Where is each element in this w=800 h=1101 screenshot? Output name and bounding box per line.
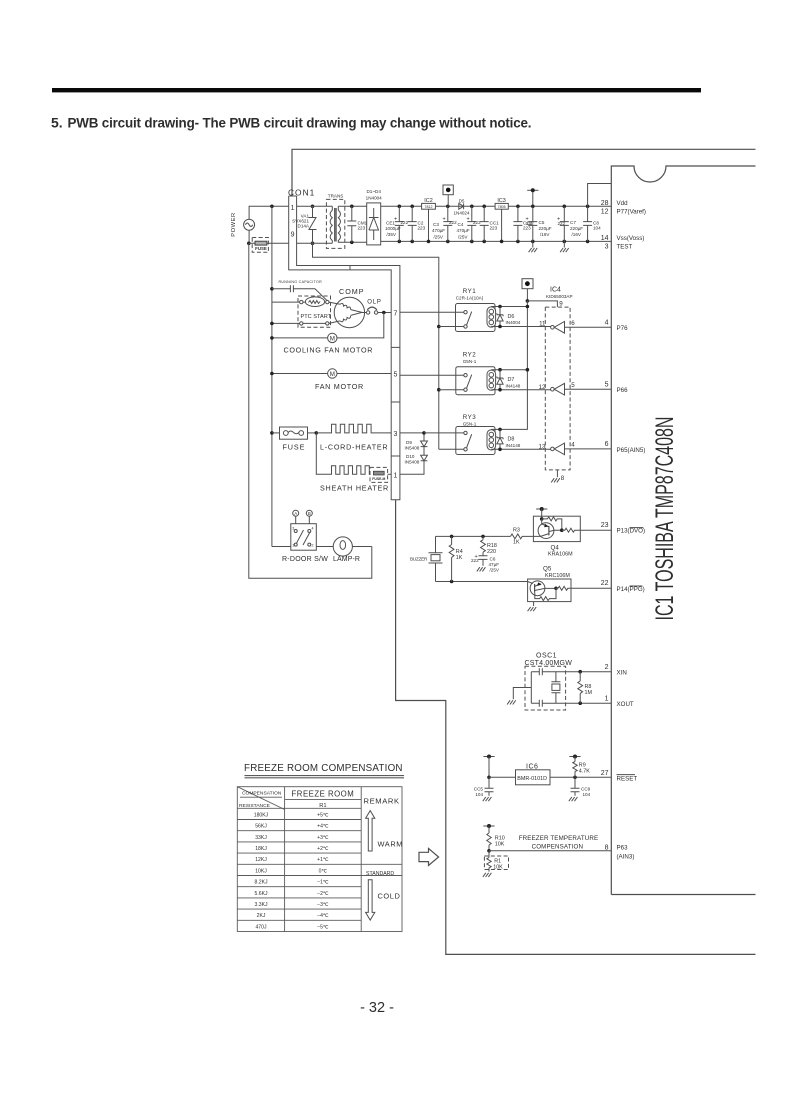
svg-text:222: 222 <box>401 220 409 225</box>
svg-text:R10: R10 <box>495 835 505 841</box>
svg-text:C7: C7 <box>570 220 576 225</box>
svg-text:KID65003AP: KID65003AP <box>546 294 573 299</box>
svg-text:+: + <box>394 217 397 223</box>
svg-text:L-CORD-HEATER: L-CORD-HEATER <box>320 442 388 451</box>
relay RY1 <box>400 288 496 331</box>
wire RY3 to pin13 <box>491 443 550 451</box>
svg-text:CC9: CC9 <box>581 787 591 792</box>
wire schematic top border <box>292 149 756 196</box>
svg-text:FUSE-M: FUSE-M <box>372 477 385 481</box>
svg-text:3: 3 <box>605 244 609 251</box>
svg-text:OSC1: OSC1 <box>536 653 557 660</box>
svg-text:2KJ: 2KJ <box>257 913 266 919</box>
svg-text:12: 12 <box>601 209 609 216</box>
diode D6 <box>491 305 529 327</box>
table headers <box>239 790 400 809</box>
svg-text:/16V: /16V <box>572 232 582 237</box>
svg-text:+1℃: +1℃ <box>317 857 329 863</box>
svg-text:470µF: 470µF <box>432 228 445 233</box>
svg-text:1M: 1M <box>585 690 593 696</box>
svg-text:TEST: TEST <box>617 244 633 251</box>
diode D8 <box>491 428 527 450</box>
svg-text:104: 104 <box>475 792 483 797</box>
svg-text:D9: D9 <box>406 440 412 445</box>
svg-text:RESET: RESET <box>617 775 638 782</box>
svg-text:RY2: RY2 <box>463 351 476 358</box>
power tap Vcc <box>527 188 538 208</box>
svg-text:Vdd: Vdd <box>617 200 629 207</box>
svg-text:12KJ: 12KJ <box>255 857 267 863</box>
svg-text:5: 5 <box>571 382 575 389</box>
table col1 values <box>254 812 269 930</box>
svg-text:470µF: 470µF <box>457 228 470 233</box>
svg-text:KRA106M: KRA106M <box>548 552 573 558</box>
arrow pointer <box>419 848 439 865</box>
capacitor CE1 <box>385 205 409 244</box>
wire power bottom to CON1 pin9 <box>249 242 289 244</box>
svg-text:33KJ: 33KJ <box>255 835 267 841</box>
svg-text:/25V: /25V <box>434 235 444 240</box>
arrow warm <box>366 811 403 851</box>
svg-text:−2℃: −2℃ <box>317 891 329 897</box>
svg-text:1N4004: 1N4004 <box>366 195 383 200</box>
svg-text:FREEZE ROOM COMPENSATION: FREEZE ROOM COMPENSATION <box>244 763 404 774</box>
svg-text:OLP: OLP <box>367 300 381 306</box>
svg-text:COMPENSATION: COMPENSATION <box>532 843 584 850</box>
svg-text:IN5408: IN5408 <box>405 460 420 465</box>
svg-text:18KJ: 18KJ <box>255 846 267 852</box>
svg-text:RUNNING CAPACITOR: RUNNING CAPACITOR <box>279 280 323 284</box>
buzzer BZ1 <box>410 536 443 581</box>
diode D10 <box>400 447 428 475</box>
svg-text:+: + <box>467 217 470 223</box>
svg-text:R4: R4 <box>456 549 463 555</box>
capacitor C5 <box>526 206 552 252</box>
svg-text:4: 4 <box>605 320 609 327</box>
svg-text:IN4148: IN4148 <box>506 383 521 388</box>
wire gnd rail <box>381 240 612 242</box>
svg-text:1: 1 <box>291 205 295 212</box>
wire CON1 to transformer primary <box>297 206 333 243</box>
pin 6 P65 <box>605 441 646 454</box>
wire +rail <box>381 205 612 207</box>
svg-text:M: M <box>330 371 335 378</box>
svg-text:IC6: IC6 <box>526 763 538 770</box>
wire switch to vertical <box>272 546 291 548</box>
regulator IC3 <box>495 198 508 243</box>
pin 27 RESET <box>601 770 638 782</box>
svg-text:P77(Varef): P77(Varef) <box>617 209 646 216</box>
wire coil supply bus <box>526 301 528 430</box>
svg-text:IN5408: IN5408 <box>405 446 420 451</box>
svg-text:M: M <box>330 336 335 343</box>
svg-text:223: 223 <box>523 226 531 231</box>
svg-text:R8: R8 <box>585 684 592 690</box>
svg-text:14: 14 <box>601 235 609 242</box>
svg-text:9: 9 <box>291 232 295 239</box>
svg-text:COMPENSATION: COMPENSATION <box>242 791 282 797</box>
pin 4 P76 <box>605 320 628 333</box>
svg-text:R18: R18 <box>487 543 497 549</box>
svg-text:- 32 -: - 32 - <box>360 1000 394 1016</box>
svg-text:C5: C5 <box>539 220 545 225</box>
svg-text:PTC START: PTC START <box>301 314 332 320</box>
heater sheath <box>316 433 389 493</box>
pin 12 P77 <box>601 209 646 216</box>
svg-text:28: 28 <box>601 200 609 207</box>
PTC start relay <box>298 296 332 327</box>
svg-text:IN4148: IN4148 <box>506 443 521 448</box>
svg-text:P13(DVO): P13(DVO) <box>617 528 646 535</box>
svg-text:LAMP-R: LAMP-R <box>333 556 360 563</box>
pin 1 XOUT <box>605 695 634 708</box>
motor COMP <box>329 287 367 328</box>
svg-text:G5N-1: G5N-1 <box>463 359 477 364</box>
svg-text:FREEZER TEMPERATURE: FREEZER TEMPERATURE <box>519 835 599 842</box>
table frame <box>237 787 402 932</box>
svg-text:222: 222 <box>526 221 534 226</box>
svg-text:180KJ: 180KJ <box>254 812 269 818</box>
svg-text:222: 222 <box>449 220 457 225</box>
resistor R10 <box>483 824 611 853</box>
pin 14 Vss <box>601 235 645 242</box>
svg-text:BMR-0101D: BMR-0101D <box>517 776 547 782</box>
switch R-door <box>282 510 328 563</box>
svg-text:Vss(Voss): Vss(Voss) <box>617 235 645 242</box>
capacitor C6 <box>471 554 500 573</box>
wire PTC left leads <box>272 302 300 323</box>
svg-text:SHEATH HEATER: SHEATH HEATER <box>320 484 389 493</box>
diode D9 <box>400 431 428 450</box>
svg-text:1N4024: 1N4024 <box>453 211 470 216</box>
svg-text:WARM: WARM <box>378 839 404 848</box>
svg-text:2: 2 <box>605 664 609 671</box>
breaker OLP <box>366 300 391 315</box>
svg-text:D6: D6 <box>508 314 515 320</box>
svg-text:KRC106M: KRC106M <box>545 573 570 579</box>
svg-text:1K: 1K <box>456 555 463 561</box>
wire Vdd jog <box>588 184 612 207</box>
svg-text:6: 6 <box>571 320 575 327</box>
svg-text:COLD: COLD <box>378 891 401 900</box>
node power bottom junction <box>247 242 251 246</box>
top rule <box>52 88 701 92</box>
svg-text:RY3: RY3 <box>463 414 476 421</box>
capacitor CC3 <box>513 205 532 244</box>
svg-text:3: 3 <box>394 431 398 438</box>
capacitor C3 <box>432 205 457 244</box>
capacitor CC5 <box>474 777 494 801</box>
wire IC4 pin9 stub <box>527 301 557 307</box>
svg-text:D14A: D14A <box>298 224 310 229</box>
inverter IC4b <box>551 382 612 395</box>
svg-text:C2R-1A(10A): C2R-1A(10A) <box>456 296 484 301</box>
svg-text:C3: C3 <box>433 222 439 227</box>
svg-text:FREEZE ROOM: FREEZE ROOM <box>292 790 355 799</box>
svg-text:23: 23 <box>601 522 609 529</box>
svg-text:PWB circuit drawing- The PWB c: PWB circuit drawing- The PWB circuit dra… <box>68 116 532 131</box>
svg-text:−5℃: −5℃ <box>317 924 329 930</box>
svg-text:104: 104 <box>593 226 601 231</box>
svg-text:8: 8 <box>561 475 565 482</box>
svg-text:5: 5 <box>605 381 609 388</box>
svg-text:1000µF: 1000µF <box>385 226 401 231</box>
svg-text:R-DOOR S/W: R-DOOR S/W <box>282 556 328 563</box>
inverter IC4c <box>551 442 612 455</box>
svg-text:1: 1 <box>394 472 398 479</box>
diode D7 <box>491 368 529 390</box>
svg-text:+4℃: +4℃ <box>317 824 329 830</box>
svg-text:Q4: Q4 <box>551 544 560 551</box>
capacitor CC9 <box>569 777 591 801</box>
svg-text:1K: 1K <box>513 540 520 546</box>
arrow cold <box>366 880 401 920</box>
svg-text:P65(AIN5): P65(AIN5) <box>617 447 646 454</box>
svg-text:R3: R3 <box>513 528 520 534</box>
svg-text:220: 220 <box>487 549 496 555</box>
svg-text:IC1 TOSHIBA TMP87C408N: IC1 TOSHIBA TMP87C408N <box>651 417 679 621</box>
svg-text:XOUT: XOUT <box>617 701 634 708</box>
resistor R4 <box>449 535 463 584</box>
svg-text:223: 223 <box>418 226 426 231</box>
svg-text:R9: R9 <box>579 762 586 768</box>
wire RY2 to pin12 <box>491 384 550 392</box>
svg-text:−1℃: −1℃ <box>317 880 329 886</box>
svg-text:10KJ: 10KJ <box>255 868 267 874</box>
wire left branch vertical <box>271 206 273 546</box>
capacitor C7 <box>557 205 583 253</box>
wire RY1 to pin11 <box>491 321 550 329</box>
transistor Q5 <box>528 566 612 612</box>
svg-text:4.7K: 4.7K <box>579 769 590 775</box>
capacitor C2 <box>408 205 426 244</box>
svg-text:C4: C4 <box>458 222 464 227</box>
svg-text:REMARK: REMARK <box>364 796 400 805</box>
svg-text:COMP: COMP <box>339 287 365 296</box>
svg-text:D5: D5 <box>459 198 465 203</box>
pin 5 P66 <box>605 381 628 393</box>
svg-text:P63: P63 <box>617 845 629 852</box>
pin 2 XIN <box>605 664 627 677</box>
svg-text:BUZZER: BUZZER <box>410 556 428 561</box>
table col2 values <box>317 812 329 930</box>
svg-text:5.: 5. <box>51 115 63 131</box>
svg-text:STANDARD: STANDARD <box>366 871 394 877</box>
svg-text:3.3KJ: 3.3KJ <box>254 902 267 908</box>
svg-text:220µF: 220µF <box>570 226 583 231</box>
svg-text:P76: P76 <box>617 325 629 332</box>
wire buzzer top <box>436 535 511 537</box>
fuse dashed line fuse <box>252 238 268 253</box>
fuse F1 <box>270 427 318 451</box>
svg-text:IC4: IC4 <box>550 287 561 294</box>
svg-text:4: 4 <box>312 527 314 531</box>
bridge rectifier D1~D4 <box>366 189 383 245</box>
capacitor running <box>270 280 327 301</box>
regulator IC2 <box>422 198 436 243</box>
pin 22 P14 <box>601 580 645 593</box>
svg-text:C6: C6 <box>490 556 496 561</box>
thermistor R1 <box>483 851 509 877</box>
svg-text:D8: D8 <box>508 437 515 443</box>
fuse thermal <box>370 467 391 482</box>
svg-text:TRANS: TRANS <box>328 194 344 199</box>
svg-text:RY1: RY1 <box>463 288 476 295</box>
svg-text:7805: 7805 <box>498 205 506 209</box>
diode D5 <box>453 198 470 215</box>
capacitor CM1 <box>347 205 367 245</box>
svg-text:56KJ: 56KJ <box>255 824 267 830</box>
resistor R18 <box>481 535 497 556</box>
svg-text:IN4004: IN4004 <box>506 320 521 325</box>
svg-text:A: A <box>294 511 297 516</box>
svg-text:FUSE: FUSE <box>255 246 267 251</box>
svg-text:47µF: 47µF <box>489 562 500 567</box>
svg-text:22: 22 <box>601 580 609 587</box>
resistor R3 <box>511 528 534 546</box>
svg-text:D7: D7 <box>508 377 515 383</box>
test point TP1 <box>443 185 453 206</box>
svg-text:/25V: /25V <box>490 567 500 572</box>
svg-text:0℃: 0℃ <box>319 868 328 874</box>
oscillator OSC1 <box>507 653 611 710</box>
svg-text:Q5: Q5 <box>543 566 552 573</box>
heater L-cord <box>316 424 391 451</box>
pin 23 P13 <box>601 522 645 535</box>
ground IC4 pin8 <box>551 470 565 483</box>
svg-text:7: 7 <box>394 311 398 318</box>
svg-text:/35V: /35V <box>387 232 397 237</box>
motor fan <box>270 369 391 391</box>
svg-text:D10: D10 <box>406 454 415 459</box>
transformer TRANS <box>326 194 366 249</box>
connector CON1 <box>288 188 400 500</box>
reset IC6 <box>483 755 611 785</box>
relay RY3 <box>424 414 496 455</box>
svg-text:470J: 470J <box>255 924 266 930</box>
inverter IC4a <box>551 320 612 333</box>
resistor R9 <box>569 755 590 778</box>
wire relay contact feed <box>313 243 439 449</box>
wire schematic bottom return <box>396 500 756 955</box>
svg-text:1: 1 <box>605 695 609 702</box>
svg-text:9: 9 <box>559 300 563 307</box>
svg-text:+2℃: +2℃ <box>317 846 329 852</box>
pin 3 TEST <box>605 244 633 251</box>
svg-text:+3℃: +3℃ <box>317 835 329 841</box>
transistor Q4 <box>533 507 611 558</box>
svg-text:POWER: POWER <box>231 212 237 236</box>
svg-text:7812: 7812 <box>425 205 433 209</box>
svg-text:222: 222 <box>471 558 479 563</box>
svg-text:104: 104 <box>583 792 591 797</box>
AC power source <box>231 206 289 243</box>
svg-text:222: 222 <box>558 221 566 226</box>
capacitor C4 <box>457 205 482 244</box>
svg-text:FUSE: FUSE <box>283 442 306 451</box>
test point TP2 <box>522 279 533 303</box>
svg-text:27: 27 <box>601 770 609 777</box>
svg-text:R1: R1 <box>319 803 326 809</box>
svg-text:D1~D4: D1~D4 <box>366 189 381 194</box>
varistor VA1 <box>292 205 316 246</box>
svg-text:−3℃: −3℃ <box>317 902 329 908</box>
svg-text:5: 5 <box>394 371 398 378</box>
op-amp U-IC1 outline <box>611 166 755 895</box>
pin 8 P63 <box>605 845 635 861</box>
svg-text:220µF: 220µF <box>539 226 552 231</box>
wire buzzer bottom <box>436 581 528 583</box>
svg-text:6: 6 <box>605 441 609 448</box>
svg-text:B: B <box>308 511 311 516</box>
relay RY2 <box>400 351 496 394</box>
capacitor CC1 <box>480 205 499 244</box>
svg-text:5.6KJ: 5.6KJ <box>254 891 267 897</box>
svg-text:COOLING FAN MOTOR: COOLING FAN MOTOR <box>284 345 374 354</box>
wire lamp return loop <box>249 243 372 578</box>
lamp LAMP-R <box>316 537 372 563</box>
svg-text:4: 4 <box>571 442 575 449</box>
svg-text:223: 223 <box>358 226 366 231</box>
svg-text:10K: 10K <box>495 842 505 848</box>
svg-text:P14(PPG): P14(PPG) <box>617 586 645 593</box>
capacitor C8 <box>583 205 601 244</box>
driver IC4 <box>545 287 572 470</box>
svg-text:CC5: CC5 <box>474 787 484 792</box>
motor cooling fan <box>270 313 384 355</box>
svg-text:8.2KJ: 8.2KJ <box>254 880 267 886</box>
svg-text:+: + <box>443 217 446 223</box>
resistor R8 <box>578 670 593 705</box>
svg-text:RESISTANCE: RESISTANCE <box>239 803 271 809</box>
svg-text:10K: 10K <box>493 864 503 870</box>
svg-text:+5℃: +5℃ <box>317 812 329 818</box>
node power top junction <box>270 205 274 209</box>
svg-text:FAN MOTOR: FAN MOTOR <box>315 382 364 391</box>
svg-text:/25V: /25V <box>458 235 468 240</box>
svg-text:−4℃: −4℃ <box>317 913 329 919</box>
pin 28 Vdd <box>601 200 628 207</box>
svg-text:/16V: /16V <box>540 232 550 237</box>
svg-text:223: 223 <box>490 226 498 231</box>
svg-text:2: 2 <box>312 543 314 547</box>
svg-text:XIN: XIN <box>617 670 627 677</box>
svg-text:P66: P66 <box>617 387 629 394</box>
svg-text:G5N-1: G5N-1 <box>463 421 477 426</box>
svg-text:222: 222 <box>473 220 481 225</box>
svg-text:(AIN3): (AIN3) <box>617 853 635 860</box>
